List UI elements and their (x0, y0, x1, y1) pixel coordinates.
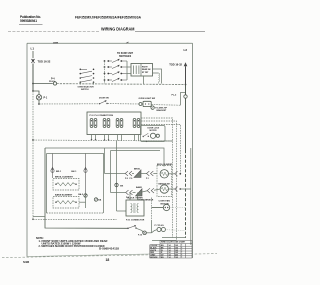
svg-text:P-9: P-9 (130, 178, 133, 180)
svg-text:CLOCK / TIMER: CLOCK / TIMER (127, 197, 143, 199)
svg-text:BAKE ELEM: BAKE ELEM (159, 182, 171, 185)
svg-text:OVEN LIGHT SW: OVEN LIGHT SW (139, 98, 156, 100)
svg-text:TO ANTI-TIP: TO ANTI-TIP (155, 106, 167, 109)
svg-text:P-10: P-10 (138, 235, 142, 237)
svg-text:CONV FAN: CONV FAN (159, 200, 171, 203)
svg-text:P-11 CONNECTOR: P-11 CONNECTOR (126, 220, 145, 222)
svg-text:18: 18 (106, 258, 110, 262)
svg-text:P-8: P-8 (125, 178, 128, 180)
svg-text:SWITCHES: SWITCHES (119, 56, 132, 58)
svg-text:P-7 PLUG: P-7 PLUG (155, 225, 165, 227)
svg-text:BAKE ELEMENT: BAKE ELEMENT (55, 194, 73, 197)
svg-text:PLUG: PLUG (49, 81, 55, 83)
svg-text:REAR SW: REAR SW (142, 68, 151, 71)
svg-text:MOTOR: MOTOR (150, 130, 158, 132)
svg-text:14: 14 (169, 256, 171, 259)
svg-text:WIRING DIAGRAM: WIRING DIAGRAM (101, 27, 135, 32)
svg-text:P-1: P-1 (44, 96, 48, 99)
svg-text:BROWN: BROWN (150, 257, 158, 259)
svg-text:TOD 16-32: TOD 16-32 (38, 60, 51, 64)
svg-text:WIRE COLOR CODE CHART: WIRE COLOR CODE CHART (161, 241, 186, 244)
svg-text:PL-2: PL-2 (172, 95, 178, 97)
svg-text:TO SURF UNIT: TO SURF UNIT (117, 53, 134, 55)
svg-text:UNITS RATED 2100W / 1250W: UNITS RATED 2100W / 1250W (42, 243, 82, 246)
svg-text:1. FRONT SURF UNITS ARE RATED: 1. FRONT SURF UNITS ARE RATED 1500W AND … (39, 240, 108, 243)
svg-text:FEF352MXJ/FEF352MXESA/FEF352MX: FEF352MXJ/FEF352MXESA/FEF352MXGSA (75, 16, 142, 20)
svg-text:BAKE: BAKE (136, 186, 143, 189)
svg-text:BK-1: BK-1 (71, 171, 77, 173)
svg-text:TOD 16-32: TOD 16-32 (169, 63, 182, 67)
svg-text:2. SWITCHES SHOWN IN OFF POSIT: 2. SWITCHES SHOWN IN OFF POSITION DOOR C… (39, 246, 105, 248)
svg-text:105: 105 (175, 257, 178, 259)
svg-text:P-1: P-1 (146, 178, 149, 180)
svg-text:BRACKET: BRACKET (157, 109, 168, 112)
svg-text:D-5995414118: D-5995414118 (99, 247, 120, 250)
svg-text:NOTE:: NOTE: (36, 237, 44, 240)
svg-text:SWITCH: SWITCH (81, 89, 89, 91)
svg-text:L1: L1 (31, 47, 35, 51)
svg-text:S/96: S/96 (23, 260, 30, 264)
svg-text:RT FRT: RT FRT (142, 72, 149, 74)
svg-text:DOOR SW: DOOR SW (99, 97, 109, 99)
svg-text:RIGHT: RIGHT (142, 66, 148, 68)
svg-text:P-5 / P-6 CONNECTORS: P-5 / P-6 CONNECTORS (90, 115, 114, 117)
svg-text:BR-1: BR-1 (56, 171, 62, 173)
svg-text:5995386941: 5995386941 (20, 19, 37, 23)
svg-text:BROIL: BROIL (134, 168, 141, 170)
svg-text:L2: L2 (184, 48, 188, 52)
